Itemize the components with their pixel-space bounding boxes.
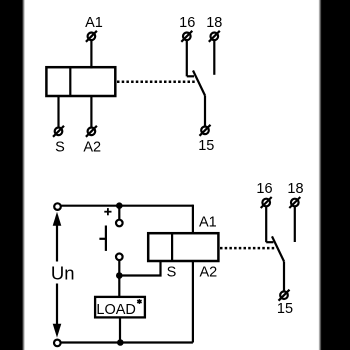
svg-text:LOAD: LOAD — [96, 302, 135, 318]
relay coil box (bottom diagram) — [148, 233, 218, 261]
Un arrow shaft upper — [56, 225, 58, 262]
terminal 16 (screw terminal symbol) — [181, 31, 192, 42]
Un up arrowhead — [53, 212, 62, 226]
wire coil to terminal A2 — [90, 96, 92, 128]
label asterisk (LOAD footnote) — [137, 299, 141, 304]
pushbutton actuator tick — [99, 238, 106, 240]
top supply wire — [61, 205, 193, 207]
svg-text:15: 15 — [277, 301, 293, 317]
svg-text:18: 18 — [287, 181, 303, 197]
plus sign label — [104, 208, 111, 215]
junction dot at S node — [116, 272, 123, 279]
junction dot on bottom supply wire — [117, 339, 124, 346]
svg-text:A2: A2 — [83, 139, 101, 155]
relay coil box (top diagram) — [46, 67, 115, 96]
coil box divider — [69, 67, 71, 96]
terminal 15 (screw terminal symbol) — [200, 125, 211, 136]
wire 16 down to fixed contact (bottom diagram) — [265, 206, 267, 242]
wire A1 to coil box — [90, 40, 92, 68]
wire LOAD to bottom supply wire — [119, 317, 121, 342]
wire junction to pushbutton — [118, 206, 120, 220]
terminal 16 (bottom diagram) — [261, 197, 272, 208]
right black border bar — [319, 0, 322, 350]
fixed contact seat 16 (hook) — [187, 75, 194, 77]
mechanical link dotted line (bottom diagram) — [220, 247, 276, 250]
wire junction to LOAD — [118, 276, 120, 298]
wire blade to terminal 15 — [204, 96, 206, 127]
wire blade to terminal 15 (bottom diagram) — [283, 261, 285, 291]
wire coil to terminal S — [57, 96, 59, 128]
mechanical link dotted line (coil to contact, top diagram) — [117, 81, 197, 84]
supply terminal - (open circle, bottom left) — [54, 340, 61, 347]
terminal 18 (bottom diagram) — [289, 197, 300, 208]
svg-text:18: 18 — [206, 15, 222, 31]
pushbutton bottom contact (open circle) — [116, 253, 123, 260]
pushbutton actuator bar — [105, 226, 107, 251]
left black border bar — [0, 0, 22, 350]
Un down arrowhead — [53, 324, 62, 338]
svg-text:15: 15 — [198, 138, 214, 154]
Un arrow shaft lower — [56, 284, 58, 326]
fixed contact seat 16 (bottom diagram) — [266, 241, 273, 243]
terminal S (screw terminal symbol) — [53, 126, 64, 137]
svg-text:S: S — [55, 139, 65, 155]
wire 16 down to fixed contact — [186, 40, 188, 76]
terminal 18 (screw terminal symbol) — [209, 31, 220, 42]
LOAD box — [95, 297, 145, 318]
svg-text:16: 16 — [179, 15, 195, 31]
svg-text:A2: A2 — [200, 264, 218, 280]
wire pushbutton to junction — [118, 260, 120, 279]
svg-text:S: S — [167, 264, 177, 280]
svg-text:Un: Un — [51, 263, 75, 284]
moving contact blade (bottom diagram) — [272, 236, 284, 261]
moving contact blade (top diagram) — [193, 71, 205, 96]
terminal A2 (screw terminal symbol) — [86, 126, 97, 137]
wire 18 down (bottom diagram) — [294, 206, 296, 242]
wire 18 down to open contact — [213, 40, 215, 75]
wire coil A2 to bottom supply wire — [192, 261, 194, 343]
supply terminal + (open circle, top left) — [54, 203, 61, 210]
svg-text:16: 16 — [256, 181, 272, 197]
bottom supply wire — [61, 341, 193, 343]
terminal A1 (screw terminal symbol) — [86, 31, 97, 42]
junction dot on top supply wire — [116, 202, 123, 209]
wire S node to coil S pin — [119, 261, 160, 276]
coil box divider (bottom diagram) — [171, 233, 173, 261]
svg-text:A1: A1 — [199, 215, 217, 231]
svg-text:A1: A1 — [85, 15, 103, 31]
terminal 15 (bottom diagram) — [279, 290, 290, 301]
wire top supply to coil A1 — [192, 205, 194, 234]
pushbutton top contact (open circle) — [116, 220, 123, 227]
